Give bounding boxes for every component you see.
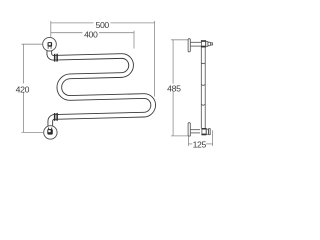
svg-text:125: 125: [193, 139, 207, 149]
svg-text:400: 400: [84, 29, 98, 39]
svg-text:420: 420: [16, 84, 30, 94]
svg-text:485: 485: [167, 84, 181, 94]
svg-text:500: 500: [95, 20, 109, 30]
